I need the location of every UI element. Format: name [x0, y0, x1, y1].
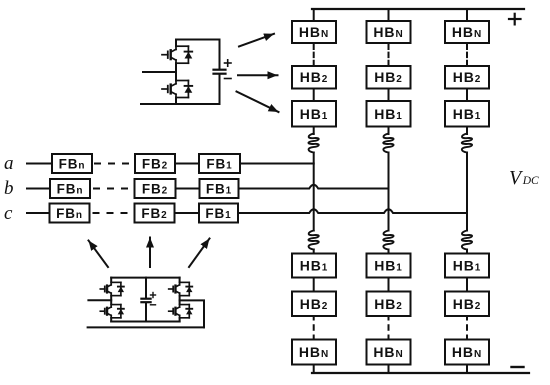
wire: top DC rail	[312, 8, 524, 10]
wire: HB-cell top rail	[176, 39, 220, 41]
module HB2 lower leg3	[445, 292, 489, 317]
module FB2 phase a	[135, 154, 175, 173]
wire: HB2-HB1 leg2 upper	[388, 89, 390, 102]
inductor lower arm leg1	[308, 231, 318, 250]
wire: HB2-HB1 leg1 upper	[313, 89, 315, 102]
transistor Q6 with antiparallel diode (FB right lower)	[169, 305, 193, 318]
wire: HB-cell AC mid terminal	[143, 71, 176, 73]
module HB2 upper leg3	[445, 66, 489, 89]
svg-text:a: a	[4, 153, 14, 174]
wire: FB-cell capacitor branch upper	[145, 278, 147, 298]
module HB1 lower leg3	[445, 254, 489, 278]
inductor upper arm leg3	[462, 134, 472, 153]
node: capacitor C1 plus mark	[225, 60, 232, 66]
wire: HB-cell right branch upper	[219, 40, 221, 69]
module FB2 phase c	[135, 204, 175, 223]
wire: dashed link FBn-FB2 phase c	[94, 212, 128, 214]
wire: FB-cell bottom rail	[111, 321, 179, 323]
arrow: FB cell to phase b chain	[149, 238, 151, 268]
module HB2 lower leg2	[367, 292, 411, 317]
node: minus terminal of Vdc	[512, 366, 524, 368]
module HB1 lower leg2	[367, 254, 411, 278]
wire: FB-cell right leg lower segment	[179, 318, 181, 322]
wire: FB-cell AC terminal right bottom run	[88, 326, 204, 328]
arrow: FB cell to phase c chain	[189, 239, 210, 268]
wire: FB2-FB1 phase a	[175, 163, 199, 165]
wire: FB-cell AC terminal right upper jog	[180, 300, 204, 327]
wire: HB-cell left leg middle segment	[175, 63, 177, 80]
transistor Q4 with antiparallel diode (FB left lower)	[100, 305, 124, 318]
wire: HB-cell left leg upper segment	[175, 40, 177, 47]
arrow: HB cell to HBN	[239, 34, 274, 47]
svg-text:b: b	[4, 178, 14, 199]
wire: dashed link HB2-HBN leg3 lower	[466, 317, 468, 340]
capacitor C2 of FB cell	[141, 299, 150, 303]
wire: inductor to HB1 leg1 lower	[313, 250, 315, 254]
wire: dashed link HBN-HB2 leg2 upper	[388, 45, 390, 66]
module FBn phase a	[52, 154, 92, 173]
wire: FB-cell right leg middle segment	[179, 296, 181, 305]
node: plus terminal of Vdc	[509, 14, 521, 25]
module HBN upper leg2	[367, 21, 411, 43]
wire: leg2 middle vertical	[388, 153, 390, 231]
inductor lower arm leg3	[462, 231, 472, 250]
wire: FB-cell left leg middle segment	[110, 296, 112, 305]
wire: FB-cell top rail	[111, 277, 179, 279]
wire: dashed link HB2-HBN leg1 lower	[313, 317, 315, 340]
wire: HB-cell bottom rail and lower terminal	[141, 103, 220, 105]
wire: phase b lead-in	[27, 188, 50, 190]
svg-text:c: c	[4, 203, 13, 224]
wire: HB1-HB2 leg3 lower	[466, 278, 468, 292]
wire: phase b to leg2 with hop over leg1	[239, 185, 389, 189]
module FB1 phase c	[199, 204, 238, 223]
module FB1 phase b	[200, 179, 239, 198]
wire: HB-cell left leg lower segment	[175, 98, 177, 105]
wire: phase a to leg1	[240, 163, 314, 165]
wire: leg3 stub to bottom rail	[466, 365, 468, 374]
module HBN lower leg1	[292, 340, 336, 365]
module HB2 lower leg1	[292, 292, 336, 317]
wire: leg1 middle vertical	[313, 153, 315, 231]
module HB2 upper leg2	[367, 66, 411, 89]
transistor Q1 with antiparallel diode (upper)	[162, 46, 192, 63]
module FB2 phase b	[135, 179, 176, 198]
module HBN upper leg1	[292, 21, 336, 43]
wire: FB-cell capacitor branch lower	[145, 303, 147, 321]
wire: HB1 to inductor leg3 upper	[466, 127, 468, 135]
wire: FB-cell right leg upper segment	[179, 278, 181, 283]
wire: dashed link HBN-HB2 leg3 upper	[466, 45, 468, 66]
wire: HB2-HB1 leg3 upper	[466, 89, 468, 102]
module FBn phase c	[50, 204, 90, 223]
wire: FB-cell left leg lower segment	[110, 318, 112, 322]
wire: dashed link HB2-HBN leg2 lower	[388, 317, 390, 340]
wire: leg2 stub to bottom rail	[388, 365, 390, 374]
wire: leg3 middle vertical	[466, 153, 468, 231]
capacitor C1 of HB cell	[214, 70, 226, 74]
wire: dashed link FBn-FB2 phase b	[94, 188, 128, 190]
wire: leg1 stub from top rail	[313, 9, 315, 21]
wire: dashed link FBn-FB2 phase a	[95, 163, 129, 165]
node: capacitor C2 minus mark	[151, 304, 156, 306]
wire: phase a lead-in	[27, 163, 52, 165]
inductor upper arm leg2	[383, 134, 393, 153]
wire: HB-cell right branch lower	[219, 75, 221, 104]
wire: phase c to leg3 with hops over leg1 and leg2	[238, 209, 467, 213]
arrow: HB cell to HB1	[237, 92, 279, 113]
transistor Q5 with antiparallel diode (FB right upper)	[169, 282, 193, 295]
module HBN lower leg3	[445, 340, 489, 365]
node: capacitor C1 minus mark	[225, 78, 232, 80]
module FBn phase b	[50, 179, 90, 198]
module FB1 phase a	[199, 154, 240, 173]
wire: inductor to HB1 leg3 lower	[466, 250, 468, 254]
wire: phase c lead-in	[27, 212, 50, 214]
transistor Q3 with antiparallel diode (FB left upper)	[100, 282, 124, 295]
module HBN lower leg2	[367, 340, 411, 365]
wire: HB1 to inductor leg1 upper	[313, 127, 315, 135]
inductor lower arm leg2	[383, 231, 393, 250]
wire: HB1-HB2 leg1 lower	[313, 278, 315, 292]
wire: leg3 stub from top rail	[466, 9, 468, 21]
module HB1 upper leg2	[367, 101, 411, 127]
node: capacitor C2 plus mark	[151, 293, 156, 298]
arrow: FB cell to phase a chain	[89, 241, 109, 268]
wire: leg2 stub from top rail	[388, 9, 390, 21]
wire: bottom DC rail	[312, 372, 529, 374]
arrow: HB cell to HB2	[238, 74, 278, 76]
wire: inductor to HB1 leg2 lower	[388, 250, 390, 254]
transistor Q2 with antiparallel diode (lower)	[162, 81, 192, 98]
wire: FB2-FB1 phase b	[176, 188, 200, 190]
wire: HB1 to inductor leg2 upper	[388, 127, 390, 135]
module HB1 lower leg1	[292, 254, 336, 278]
module HB1 upper leg1	[292, 101, 336, 127]
wire: leg1 stub to bottom rail	[313, 365, 315, 374]
svg-text:VDC: VDC	[509, 167, 539, 189]
wire: FB-cell left leg upper segment	[110, 278, 112, 283]
module HBN upper leg3	[445, 21, 489, 43]
module HB2 upper leg1	[292, 66, 336, 89]
wire: HB1-HB2 leg2 lower	[388, 278, 390, 292]
wire: dashed link HBN-HB2 leg1 upper	[313, 45, 315, 66]
module HB1 upper leg3	[445, 101, 489, 127]
wire: FB2-FB1 phase c	[175, 212, 200, 214]
wire: FB-cell AC terminal left	[88, 299, 111, 301]
inductor upper arm leg1	[308, 134, 318, 153]
